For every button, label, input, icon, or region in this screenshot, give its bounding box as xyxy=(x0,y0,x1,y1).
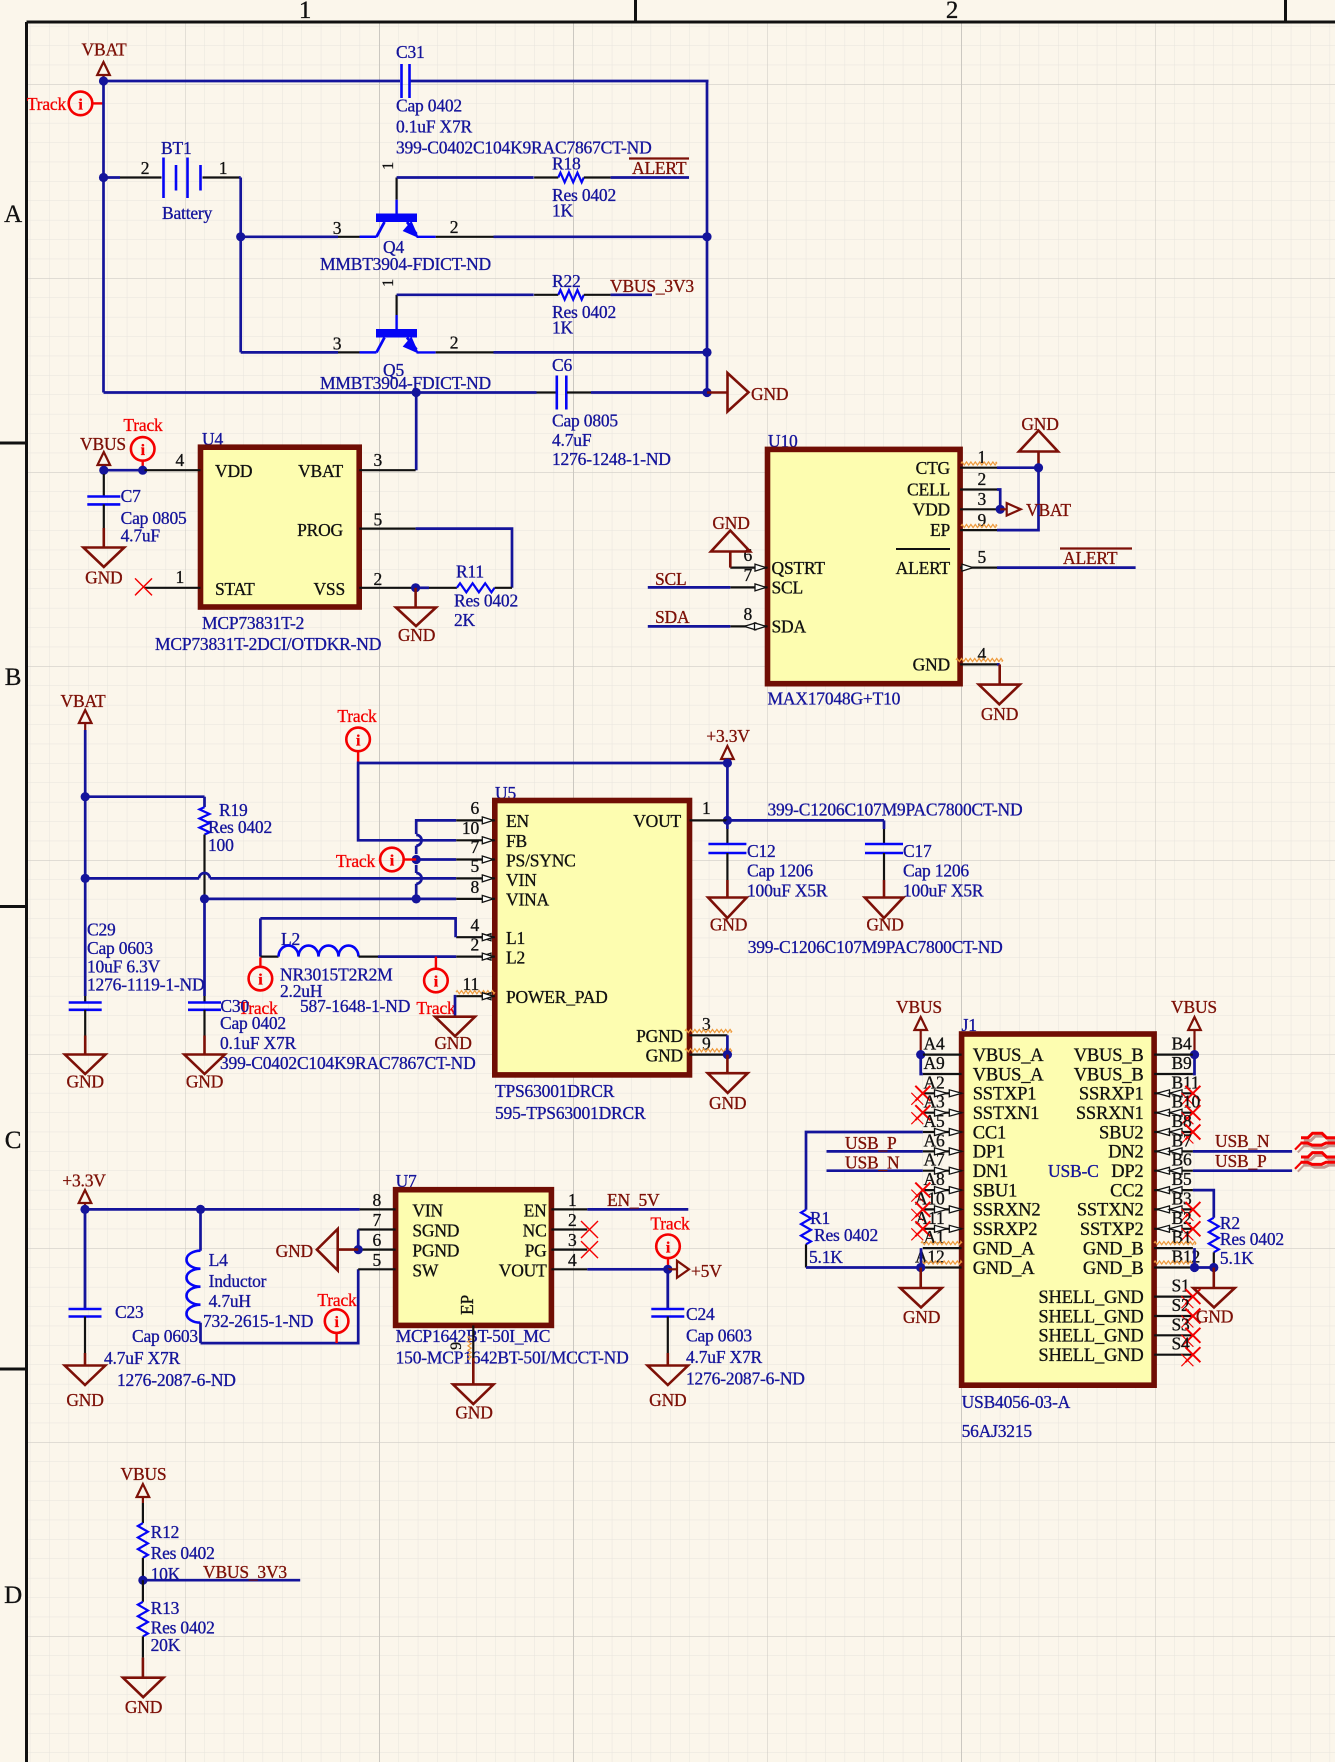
svg-text:8: 8 xyxy=(743,604,752,624)
wire Q4 base xyxy=(241,235,338,238)
J1 pin S1 SHELL_GND xyxy=(1038,1276,1200,1309)
wire J1 A4-A9 VBUS xyxy=(921,1055,923,1074)
svg-text:3: 3 xyxy=(374,450,383,470)
power port VBUS at J1 right xyxy=(1171,997,1217,1059)
svg-text:USB4056-03-A: USB4056-03-A xyxy=(962,1392,1071,1412)
power port +3.3V at U7 xyxy=(62,1170,106,1214)
wire CC2 to R2 xyxy=(1193,1190,1214,1218)
svg-text:SHELL_GND: SHELL_GND xyxy=(1038,1346,1143,1366)
svg-text:SHELL_GND: SHELL_GND xyxy=(1038,1307,1143,1327)
svg-text:USB_P: USB_P xyxy=(1215,1151,1267,1171)
svg-text:DN2: DN2 xyxy=(1108,1143,1143,1163)
svg-text:DN1: DN1 xyxy=(973,1162,1008,1182)
wire Q5 emitter to x707 xyxy=(494,348,712,357)
J1 pin A12 GND_A xyxy=(915,1247,1035,1279)
J1 pin B5 CC2 xyxy=(1110,1169,1193,1201)
U5 pin 11 POWER_PAD xyxy=(456,974,495,1000)
svg-text:PROG: PROG xyxy=(297,520,343,540)
track marker 4 at PS/SYNC xyxy=(336,848,416,872)
svg-text:399-C0402C104K9RAC7867CT-ND: 399-C0402C104K9RAC7867CT-ND xyxy=(396,138,652,158)
svg-text:VDD: VDD xyxy=(215,461,252,481)
wire EN riser xyxy=(412,820,457,899)
svg-text:SCL: SCL xyxy=(772,578,804,598)
svg-text:4.7uF X7R: 4.7uF X7R xyxy=(686,1347,763,1367)
svg-text:4.7uF X7R: 4.7uF X7R xyxy=(104,1348,181,1368)
svg-text:EP: EP xyxy=(457,1295,477,1315)
svg-text:GND_A: GND_A xyxy=(973,1239,1036,1259)
svg-text:VBUS: VBUS xyxy=(80,434,126,454)
svg-text:GND: GND xyxy=(276,1241,313,1261)
svg-text:2: 2 xyxy=(470,935,479,955)
inductor L4 xyxy=(187,1209,314,1343)
ground GND left at U7 xyxy=(276,1229,359,1270)
J1 pin B8 SBU2 xyxy=(1099,1111,1200,1144)
svg-text:100: 100 xyxy=(208,835,234,855)
svg-text:EN_5V: EN_5V xyxy=(607,1190,660,1210)
IC U4 MCP73831 xyxy=(155,429,381,654)
svg-text:EN: EN xyxy=(524,1201,547,1221)
svg-text:MMBT3904-FDICT-ND: MMBT3904-FDICT-ND xyxy=(320,373,491,393)
J1 pin B1 GND_B xyxy=(1083,1227,1196,1259)
wire USB_P A6 xyxy=(827,1150,923,1153)
capacitor C24 xyxy=(651,1269,804,1388)
U4 pin 5 xyxy=(359,510,415,530)
svg-text:+5V: +5V xyxy=(691,1261,722,1281)
U10 pin 8 SDA xyxy=(730,604,767,630)
svg-text:VBUS: VBUS xyxy=(1171,997,1217,1017)
svg-text:NC: NC xyxy=(523,1221,547,1241)
svg-text:Res 0402: Res 0402 xyxy=(208,817,272,837)
ground GND under U5 PGND xyxy=(708,1073,748,1113)
svg-text:L2: L2 xyxy=(506,948,525,968)
svg-text:GND: GND xyxy=(981,704,1018,724)
J1 pin B3 SSTXN2 xyxy=(1077,1188,1201,1221)
ground GND under R13 xyxy=(123,1678,164,1717)
svg-text:GND_B: GND_B xyxy=(1083,1239,1144,1259)
svg-text:PGND: PGND xyxy=(412,1241,459,1261)
svg-text:i: i xyxy=(258,972,263,989)
U10 pin 9 EP xyxy=(960,510,997,530)
svg-text:6: 6 xyxy=(470,798,479,818)
svg-text:56AJ3215: 56AJ3215 xyxy=(962,1421,1033,1441)
wire U5 PGND-GND xyxy=(723,1035,732,1073)
svg-text:B9: B9 xyxy=(1172,1053,1192,1073)
svg-text:MCP73831T-2: MCP73831T-2 xyxy=(202,613,304,633)
ground GND under C7 xyxy=(83,548,124,588)
svg-text:SSRXP1: SSRXP1 xyxy=(1079,1085,1144,1105)
svg-text:100uF X5R: 100uF X5R xyxy=(747,881,828,901)
svg-text:C24: C24 xyxy=(686,1304,715,1324)
svg-text:ALERT: ALERT xyxy=(632,158,687,178)
svg-text:1276-1119-1-ND: 1276-1119-1-ND xyxy=(87,975,204,995)
U4 pin 4 xyxy=(145,450,201,470)
U5 pin 4 L1 xyxy=(456,915,495,941)
svg-text:VBAT: VBAT xyxy=(82,40,127,60)
power port +3.3V at U5 xyxy=(706,726,750,768)
svg-text:GND: GND xyxy=(751,384,788,404)
J1 pin A4 VBUS_A xyxy=(923,1034,1044,1066)
resistor R18 xyxy=(534,154,616,221)
svg-text:GND: GND xyxy=(903,1307,940,1327)
wire VBAT down to battery xyxy=(102,81,105,393)
svg-text:L4: L4 xyxy=(209,1250,228,1270)
J1 pin B11 SSRXP1 xyxy=(1079,1072,1201,1105)
svg-text:8: 8 xyxy=(372,1190,381,1210)
power port +5V xyxy=(668,1261,722,1281)
svg-text:SGND: SGND xyxy=(412,1221,459,1241)
svg-text:2: 2 xyxy=(568,1210,577,1230)
svg-text:20K: 20K xyxy=(151,1635,181,1655)
J1 pin S2 SHELL_GND xyxy=(1038,1295,1200,1328)
wire C31 right to corner x707 xyxy=(411,80,709,83)
net label ALERT top xyxy=(629,158,689,178)
svg-text:Cap 0603: Cap 0603 xyxy=(686,1326,752,1346)
svg-text:GND_A: GND_A xyxy=(973,1259,1036,1279)
svg-text:Res 0402: Res 0402 xyxy=(1220,1229,1284,1249)
U10 pin 3 VDD xyxy=(960,489,997,509)
svg-text:0.1uF X7R: 0.1uF X7R xyxy=(220,1033,297,1053)
svg-text:VBUS_A: VBUS_A xyxy=(973,1046,1045,1066)
svg-text:D: D xyxy=(4,1582,22,1609)
track marker 2 xyxy=(123,415,163,475)
svg-text:DP1: DP1 xyxy=(973,1143,1005,1163)
svg-text:R13: R13 xyxy=(151,1598,180,1618)
svg-text:CC2: CC2 xyxy=(1110,1181,1143,1201)
ground GND under U7 EP xyxy=(453,1384,494,1422)
svg-text:SDA: SDA xyxy=(772,617,807,637)
ground GND under U4 VSS xyxy=(396,588,436,645)
battery BT1 xyxy=(99,138,241,223)
svg-text:2: 2 xyxy=(450,217,459,237)
power port VBAT top-left xyxy=(82,40,127,82)
wire VIN rail xyxy=(85,873,456,878)
ground GND under C17 xyxy=(865,898,904,935)
svg-text:3: 3 xyxy=(333,334,342,354)
svg-text:3: 3 xyxy=(978,489,987,509)
svg-text:GND: GND xyxy=(455,1403,492,1423)
svg-text:C7: C7 xyxy=(121,486,141,506)
svg-text:B: B xyxy=(5,664,21,691)
svg-text:DP2: DP2 xyxy=(1111,1162,1143,1182)
wire CC1 to R1 xyxy=(806,1132,923,1210)
svg-text:MAX17048G+T10: MAX17048G+T10 xyxy=(768,689,901,709)
wire +3.3V to U7 VIN xyxy=(85,1205,360,1214)
wire SDA xyxy=(648,625,731,628)
wire VBAT rail down to C29 xyxy=(81,730,90,1003)
resistor R22 xyxy=(534,271,616,338)
net label EN_5V xyxy=(607,1190,660,1210)
resistor R2 xyxy=(1209,1213,1284,1268)
resistor R11 xyxy=(429,562,518,631)
J1 pin A9 VBUS_A xyxy=(923,1053,1044,1085)
svg-text:CC1: CC1 xyxy=(973,1123,1006,1143)
svg-text:2: 2 xyxy=(946,0,958,24)
svg-text:Track: Track xyxy=(337,706,377,726)
U7 pin 2 NC xyxy=(551,1210,587,1230)
svg-text:10uF 6.3V: 10uF 6.3V xyxy=(87,957,161,977)
svg-text:Cap 0402: Cap 0402 xyxy=(220,1013,286,1033)
track marker 6 at L2 right xyxy=(416,957,456,1018)
svg-text:GND: GND xyxy=(398,625,435,645)
svg-text:VBUS: VBUS xyxy=(896,997,942,1017)
svg-text:SSTXP1: SSTXP1 xyxy=(973,1085,1037,1105)
svg-text:SBU1: SBU1 xyxy=(973,1181,1017,1201)
svg-text:GND: GND xyxy=(434,1033,471,1053)
svg-text:GND: GND xyxy=(67,1072,104,1092)
svg-text:4: 4 xyxy=(175,450,184,470)
svg-text:C31: C31 xyxy=(396,42,425,62)
svg-text:USB-C: USB-C xyxy=(1048,1161,1099,1181)
wire USB_N A7 xyxy=(827,1169,923,1172)
wire VOUT to C17 xyxy=(727,819,884,822)
U5 pin 1 VOUT xyxy=(690,798,728,820)
wire VOUT to +5V xyxy=(587,1265,672,1274)
svg-text:5: 5 xyxy=(978,547,987,567)
svg-text:595-TPS63001DRCR: 595-TPS63001DRCR xyxy=(495,1103,646,1123)
capacitor C7 xyxy=(87,470,187,547)
wire Q4 emitter to x707 xyxy=(494,232,712,241)
svg-text:VBAT: VBAT xyxy=(61,691,106,711)
svg-text:2: 2 xyxy=(978,469,987,489)
svg-text:VBAT: VBAT xyxy=(1026,500,1071,520)
power port VBAT at U10 VDD xyxy=(1000,500,1071,520)
svg-text:5: 5 xyxy=(470,856,479,876)
svg-text:+3.3V: +3.3V xyxy=(706,726,750,746)
svg-text:6: 6 xyxy=(372,1230,381,1250)
svg-text:C12: C12 xyxy=(747,841,776,861)
no-ERC cross U7 PG xyxy=(581,1241,598,1258)
U7 pin 7 SGND xyxy=(358,1210,395,1230)
svg-text:C23: C23 xyxy=(115,1302,144,1322)
power port VBUS at J1 left xyxy=(896,997,942,1059)
svg-text:A9: A9 xyxy=(924,1053,945,1073)
svg-text:PG: PG xyxy=(525,1241,548,1261)
svg-text:VBUS_3V3: VBUS_3V3 xyxy=(610,276,694,296)
wire U10 CTG-EP net xyxy=(997,463,1043,530)
svg-text:Res 0402: Res 0402 xyxy=(151,1543,215,1563)
svg-text:GND: GND xyxy=(646,1046,683,1066)
wire PS/SYNC xyxy=(416,858,456,861)
svg-text:CTG: CTG xyxy=(916,458,951,478)
IC U7 MCP1642 xyxy=(396,1171,629,1368)
svg-text:Cap 0603: Cap 0603 xyxy=(87,938,153,958)
svg-text:EN: EN xyxy=(506,811,529,831)
U10 pin 5 ALERT xyxy=(960,547,997,571)
inductor L2 xyxy=(260,918,456,1016)
svg-text:VIN: VIN xyxy=(412,1201,443,1221)
svg-text:Track: Track xyxy=(317,1290,357,1310)
svg-text:S1: S1 xyxy=(1172,1276,1190,1296)
svg-text:GND: GND xyxy=(709,1093,746,1113)
svg-text:7: 7 xyxy=(743,565,752,585)
svg-text:VOUT: VOUT xyxy=(633,811,681,831)
svg-text:TPS63001DRCR: TPS63001DRCR xyxy=(495,1081,615,1101)
power port VBUS bottom xyxy=(121,1464,167,1503)
svg-text:VSS: VSS xyxy=(313,579,345,599)
svg-text:2K: 2K xyxy=(454,610,476,630)
IC U5 TPS63001 xyxy=(495,783,690,1123)
wire J1 B1-B12 tie xyxy=(1193,1248,1196,1267)
wire U5 POWER_PAD to GND xyxy=(455,996,456,1017)
wire USB_P B6 xyxy=(1193,1169,1292,1172)
wire Q4 collector to R18 xyxy=(397,176,534,179)
svg-text:SSRXN2: SSRXN2 xyxy=(973,1201,1041,1221)
svg-text:Battery: Battery xyxy=(162,203,213,223)
svg-text:Inductor: Inductor xyxy=(209,1271,267,1291)
svg-text:ALERT: ALERT xyxy=(1063,548,1118,568)
svg-text:4.7uF: 4.7uF xyxy=(121,525,161,545)
svg-text:STAT: STAT xyxy=(215,579,255,599)
svg-text:3: 3 xyxy=(333,218,342,238)
svg-text:1K: 1K xyxy=(552,318,574,338)
svg-text:1: 1 xyxy=(219,158,228,178)
ground GND under C29 xyxy=(65,1055,106,1092)
svg-text:4.7uF: 4.7uF xyxy=(552,430,592,450)
J1 pin S3 SHELL_GND xyxy=(1038,1314,1200,1347)
svg-text:1: 1 xyxy=(299,0,311,24)
ground GND above QSTRT xyxy=(711,513,750,568)
svg-text:7: 7 xyxy=(372,1210,381,1230)
svg-text:PS/SYNC: PS/SYNC xyxy=(506,851,576,871)
svg-text:GND_B: GND_B xyxy=(1083,1259,1144,1279)
U7 pin 1 EN xyxy=(551,1190,587,1210)
U5 pin 5 VIN xyxy=(456,856,495,882)
svg-text:Cap 1206: Cap 1206 xyxy=(747,861,813,881)
ground GND under J1 B12 xyxy=(1193,1268,1235,1327)
svg-text:5.1K: 5.1K xyxy=(809,1247,843,1267)
svg-text:1: 1 xyxy=(380,162,397,170)
svg-text:Track: Track xyxy=(650,1214,690,1234)
svg-text:SW: SW xyxy=(412,1261,439,1281)
U5 pin 9 GND xyxy=(685,1034,732,1055)
wire FB drop xyxy=(358,762,456,841)
wire R22 to VBUS_3V3 label xyxy=(611,293,652,296)
svg-text:VINA: VINA xyxy=(506,890,550,910)
U5 pin 3 PGND xyxy=(685,1014,732,1035)
U7 pin 3 PG xyxy=(551,1230,587,1250)
track marker 5 at L2 left xyxy=(238,957,278,1017)
svg-text:Cap 0805: Cap 0805 xyxy=(552,411,618,431)
svg-text:B4: B4 xyxy=(1172,1034,1192,1054)
ground GND above U10 CTG xyxy=(1019,414,1059,468)
ground GND under C12 xyxy=(708,898,747,935)
U5 pin 10 FB xyxy=(456,818,495,844)
U5 pin 7 PS xyxy=(456,837,495,863)
wire U4 VBAT pin riser xyxy=(415,393,418,471)
wire EN_5V xyxy=(587,1208,688,1211)
svg-text:L1: L1 xyxy=(506,928,525,948)
net label VBUS_3V3 bottom xyxy=(203,1562,287,1582)
svg-text:VOUT: VOUT xyxy=(499,1261,547,1281)
svg-text:BT1: BT1 xyxy=(161,138,192,158)
svg-text:399-C1206C107M9PAC7800CT-ND: 399-C1206C107M9PAC7800CT-ND xyxy=(768,800,1023,820)
svg-text:VBUS_3V3: VBUS_3V3 xyxy=(203,1562,287,1582)
U4 pin 3 xyxy=(359,450,415,470)
svg-text:ALERT: ALERT xyxy=(896,558,951,578)
transistor Q4 xyxy=(320,162,494,274)
svg-text:R18: R18 xyxy=(552,154,581,174)
J1 pin B4 VBUS_B xyxy=(1074,1034,1193,1066)
net label ALERT at U10 xyxy=(1060,548,1132,568)
svg-text:GND: GND xyxy=(649,1390,686,1410)
svg-text:SCL: SCL xyxy=(655,569,687,589)
svg-text:10: 10 xyxy=(462,818,480,838)
svg-text:1: 1 xyxy=(568,1190,577,1210)
svg-text:8: 8 xyxy=(470,877,479,897)
ground GND under J1 A12 xyxy=(900,1268,942,1328)
svg-text:GND: GND xyxy=(1196,1307,1233,1327)
svg-text:Cap 0402: Cap 0402 xyxy=(396,96,462,116)
wire J1 B4-B9 VBUS xyxy=(1193,1055,1195,1074)
svg-text:S3: S3 xyxy=(1172,1314,1191,1334)
svg-text:4: 4 xyxy=(470,915,479,935)
wire SCL xyxy=(648,586,731,589)
svg-text:C29: C29 xyxy=(87,920,116,940)
svg-text:VBAT: VBAT xyxy=(298,461,343,481)
svg-text:SBU2: SBU2 xyxy=(1099,1123,1143,1143)
svg-text:GND: GND xyxy=(125,1697,162,1717)
svg-text:QSTRT: QSTRT xyxy=(772,558,826,578)
svg-text:USB_P: USB_P xyxy=(845,1133,897,1153)
wire U4 PROG loop xyxy=(416,529,512,588)
capacitor C30 xyxy=(188,996,476,1073)
svg-text:1: 1 xyxy=(702,798,711,818)
svg-text:PGND: PGND xyxy=(636,1026,683,1046)
svg-text:GND: GND xyxy=(913,655,950,675)
U7 pin 9 EP stem xyxy=(448,1325,473,1384)
no-ERC cross U4 STAT xyxy=(135,578,152,595)
J1 pin A7 DN1 xyxy=(923,1150,1008,1182)
svg-text:Track: Track xyxy=(416,998,456,1018)
svg-text:150-MCP1642BT-50I/MCCT-ND: 150-MCP1642BT-50I/MCCT-ND xyxy=(396,1348,629,1368)
svg-text:VBUS_B: VBUS_B xyxy=(1074,1065,1144,1085)
U7 pin 6 PGND xyxy=(358,1230,395,1250)
svg-text:GND: GND xyxy=(710,915,747,935)
svg-text:MCP73831T-2DCI/OTDKR-ND: MCP73831T-2DCI/OTDKR-ND xyxy=(155,634,381,654)
svg-text:3: 3 xyxy=(568,1230,577,1250)
svg-text:399-C0402C104K9RAC7867CT-ND: 399-C0402C104K9RAC7867CT-ND xyxy=(220,1053,476,1073)
svg-text:SHELL_GND: SHELL_GND xyxy=(1038,1288,1143,1308)
label 399-C1206 top xyxy=(768,800,1023,820)
wire U10 ALERT out xyxy=(997,566,1136,569)
resistor R13 xyxy=(138,1580,215,1678)
J1 pin A3 SSTXN1 xyxy=(911,1092,1039,1125)
ground GND under C24 xyxy=(648,1366,689,1411)
svg-text:i: i xyxy=(434,974,439,991)
svg-text:USB_N: USB_N xyxy=(1215,1131,1270,1151)
label 399-C1206 bottom xyxy=(748,937,1003,957)
wire VBAT to R19 top xyxy=(85,795,204,798)
svg-text:GND: GND xyxy=(186,1072,223,1092)
U5 pin 6 EN xyxy=(456,798,495,824)
svg-text:9: 9 xyxy=(448,1342,465,1350)
svg-text:7: 7 xyxy=(470,837,479,857)
J1 pin A10 SSRXN2 xyxy=(911,1188,1040,1221)
net label USB_P right xyxy=(1215,1151,1267,1171)
wire SGND-PGND tie xyxy=(354,1230,363,1255)
U10 pin 7 SCL xyxy=(730,565,767,591)
J1 pin A8 SBU1 xyxy=(911,1169,1017,1202)
svg-text:C6: C6 xyxy=(552,355,572,375)
wire L1 loop xyxy=(260,918,455,937)
svg-text:C17: C17 xyxy=(903,841,932,861)
wire J1 A1-A12 tie xyxy=(920,1248,923,1267)
resistor R19 xyxy=(200,797,273,900)
wire R2 to GND_B xyxy=(1190,1263,1219,1272)
svg-text:i: i xyxy=(356,732,361,749)
svg-text:USB_N: USB_N xyxy=(845,1153,900,1173)
wire VBAT horizontal to C31 xyxy=(99,76,400,85)
